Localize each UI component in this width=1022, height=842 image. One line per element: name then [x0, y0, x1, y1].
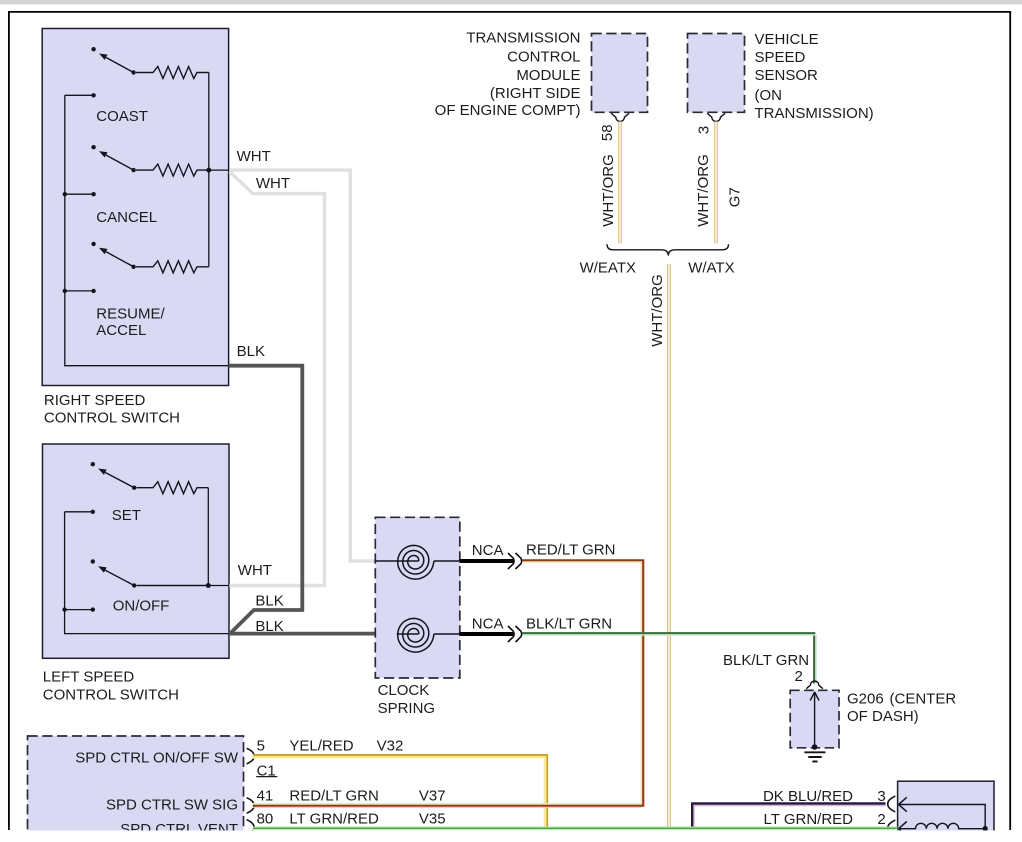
wire BLK/LT GRN (clock spring bottom to G206) [522, 633, 814, 683]
svg-text:WHT: WHT [238, 562, 272, 579]
connector (inline, top) [508, 553, 514, 569]
switch SET: contacts and arm [91, 462, 137, 490]
svg-text:SET: SET [112, 507, 141, 524]
wire WHT/ORG (from TCM) [618, 122, 622, 244]
svg-text:3: 3 [877, 788, 885, 805]
wire WHT/ORG (from VSS) [714, 122, 718, 244]
svg-text:BLK/LT GRN: BLK/LT GRN [526, 616, 612, 633]
svg-text:V35: V35 [419, 811, 446, 828]
svg-text:LT GRN/RED: LT GRN/RED [289, 811, 379, 828]
svg-text:CANCEL: CANCEL [96, 209, 157, 226]
wire BLK (left switch to clock spring bottom) [229, 632, 397, 636]
svg-text:RED/LT GRN: RED/LT GRN [289, 788, 378, 805]
vehicle speed sensor box [688, 34, 745, 113]
wire: inner right vertical (resistor to WHT junction) [207, 488, 209, 586]
resistor (SET) [65, 482, 209, 514]
svg-text:V32: V32 [377, 737, 404, 754]
wire RED/LT GRN V37 (clock spring top to pin 41) [253, 560, 643, 805]
svg-text:SENSOR: SENSOR [755, 67, 819, 84]
svg-text:WHT: WHT [256, 175, 290, 192]
brace (wire merge) [607, 244, 729, 255]
wire: inner left vertical with bottom BLK feed [65, 512, 229, 634]
ground arrow [814, 693, 816, 747]
connector (pin 80) [247, 820, 255, 836]
spd ctrl module box [28, 736, 244, 833]
node: WHT junction at right switch [206, 168, 211, 173]
svg-text:CONTROL SWITCH: CONTROL SWITCH [44, 410, 180, 427]
svg-text:SPD CTRL ON/OFF SW: SPD CTRL ON/OFF SW [75, 750, 239, 767]
transmission control module box [592, 34, 648, 113]
node: WHT junction at left switch [206, 583, 211, 588]
wire WHT (right switch junction down to left switch) [230, 172, 325, 586]
connector (inline, bottom) [508, 626, 514, 642]
svg-text:OF ENGINE COMPT): OF ENGINE COMPT) [435, 102, 581, 119]
svg-text:W/ATX: W/ATX [688, 259, 734, 276]
connector (pin 5) [247, 748, 255, 764]
svg-text:SPEED: SPEED [755, 49, 806, 66]
svg-text:(RIGHT SIDE: (RIGHT SIDE [490, 85, 581, 102]
label TRANSMISSION CONTROL MODULE [435, 30, 581, 119]
wire WHT/ORG (main vertical) [667, 264, 671, 828]
connector cup (G206) [806, 681, 823, 689]
svg-text:NCA: NCA [472, 616, 504, 633]
clock spring box [375, 517, 460, 678]
top gray bar [0, 0, 1022, 5]
svg-text:ON/OFF: ON/OFF [113, 598, 170, 615]
connector cup (VSS pin 3) [707, 113, 725, 121]
svg-text:CLOCK: CLOCK [378, 682, 430, 699]
svg-text:TRANSMISSION): TRANSMISSION) [755, 105, 874, 122]
svg-text:DK BLU/RED: DK BLU/RED [763, 788, 853, 805]
svg-text:MODULE: MODULE [516, 67, 580, 84]
wire LT GRN/RED V35 (pin 80 to servo pin 2) [253, 826, 898, 828]
connector (pin 41) [247, 798, 255, 814]
svg-text:ACCEL: ACCEL [96, 322, 146, 339]
svg-text:WHT/ORG: WHT/ORG [649, 274, 666, 347]
connector cup (TCM pin 58) [611, 113, 629, 121]
wire: feed from WHT junction to box edge (left switch) [208, 585, 229, 587]
wire NCA (bottom, thick black) [460, 632, 514, 636]
left speed control switch box [43, 444, 230, 658]
svg-text:CONTROL: CONTROL [507, 49, 580, 66]
svg-text:YEL/RED: YEL/RED [289, 737, 353, 754]
svg-text:41: 41 [257, 788, 274, 805]
svg-text:WHT/ORG: WHT/ORG [695, 154, 712, 227]
svg-text:SPD CTRL SW SIG: SPD CTRL SW SIG [106, 796, 238, 813]
wire BLK (right switch to left switch pin) [229, 366, 303, 634]
svg-text:CONTROL SWITCH: CONTROL SWITCH [43, 687, 179, 704]
svg-text:RESUME/: RESUME/ [96, 306, 165, 323]
connector (servo pin 2) [888, 820, 896, 836]
svg-text:W/EATX: W/EATX [580, 259, 636, 276]
svg-text:2: 2 [795, 668, 803, 685]
svg-text:TRANSMISSION: TRANSMISSION [466, 30, 580, 47]
svg-text:(ON: (ON [755, 87, 783, 104]
svg-text:G206: G206 [847, 691, 884, 708]
svg-text:RIGHT SPEED: RIGHT SPEED [44, 392, 146, 409]
label VEHICLE SPEED SENSOR (ON TRANSMISSION) [755, 31, 874, 122]
coil (clock spring bottom spiral) [397, 618, 460, 652]
svg-text:LEFT SPEED: LEFT SPEED [43, 669, 135, 686]
wire: inner left bus vertical with bottom BLK feed [65, 95, 229, 365]
svg-text:5: 5 [257, 737, 265, 754]
wire: inner right bus vertical (resistors to WHT junction) [208, 73, 210, 267]
switch RESUME/ACCEL: contacts and arm [91, 242, 135, 269]
svg-text:WHT: WHT [237, 148, 271, 165]
servo internal coil [899, 822, 907, 836]
switch COAST: contacts and arm [91, 47, 135, 75]
ground G206 box [790, 690, 839, 748]
svg-text:LT GRN/RED: LT GRN/RED [764, 811, 854, 828]
svg-text:NCA: NCA [472, 542, 504, 559]
svg-text:BLK: BLK [237, 343, 265, 360]
ground symbol [804, 752, 825, 761]
svg-text:BLK: BLK [255, 593, 283, 610]
servo box [898, 781, 994, 833]
wire YEL/RED V32 [253, 756, 546, 827]
svg-text:58: 58 [599, 124, 616, 141]
wire DK BLU/RED (to servo pin 3) [692, 804, 885, 828]
svg-text:SPRING: SPRING [378, 700, 436, 717]
wire WHT (right switch to clock spring top) [229, 170, 374, 561]
svg-text:G7: G7 [727, 187, 744, 207]
resistor (COAST) [65, 67, 209, 98]
svg-text:80: 80 [257, 811, 274, 828]
svg-text:VEHICLE: VEHICLE [755, 31, 819, 48]
switch CANCEL: contacts and arm [91, 145, 135, 172]
connector (servo pin 3) [888, 796, 896, 812]
svg-text:2: 2 [877, 811, 885, 828]
wire: feed from WHT junction to box edge [209, 169, 230, 171]
svg-text:BLK: BLK [255, 618, 283, 635]
svg-text:(CENTER: (CENTER [890, 691, 957, 708]
wire WHT (left switch horizontal) [229, 584, 326, 587]
svg-text:WHT/ORG: WHT/ORG [600, 154, 617, 227]
coil (clock spring top spiral) [375, 545, 460, 579]
wire NCA (top, thick black) [460, 559, 514, 563]
resistor (CANCEL) [63, 164, 209, 196]
svg-text:RED/LT GRN: RED/LT GRN [526, 542, 615, 559]
right speed control switch box [42, 29, 228, 386]
servo internal wire pin 3 with arrow [899, 805, 985, 829]
svg-text:COAST: COAST [96, 108, 148, 125]
switch ON/OFF: contacts and arm [62, 559, 208, 612]
svg-text:3: 3 [696, 126, 713, 134]
bottom crop white overlay [0, 831, 1022, 842]
resistor (RESUME/ACCEL) [63, 261, 209, 293]
svg-text:V37: V37 [419, 788, 446, 805]
svg-text:OF DASH): OF DASH) [847, 708, 919, 725]
svg-text:BLK/LT GRN: BLK/LT GRN [723, 652, 809, 669]
